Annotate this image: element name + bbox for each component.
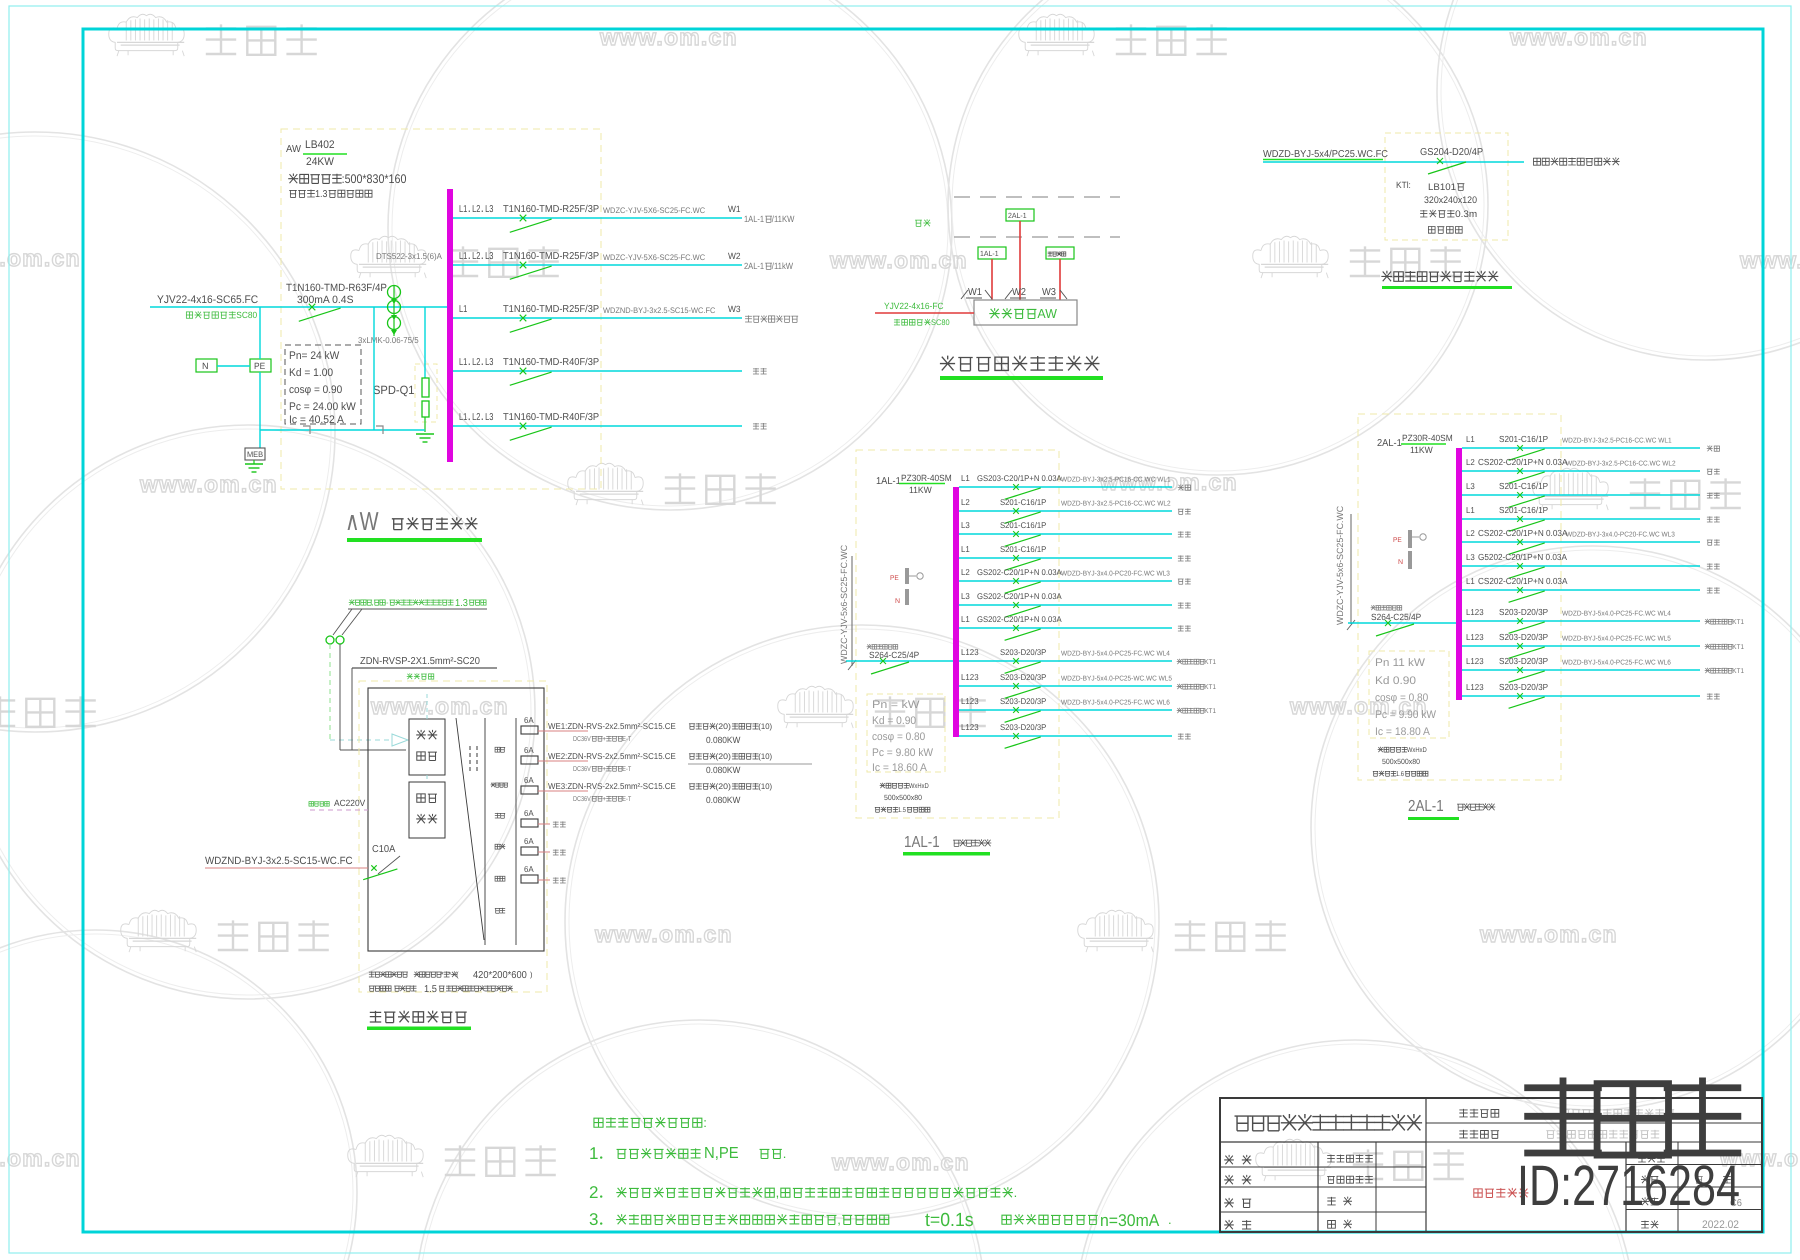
svg-text:L2: L2 <box>472 412 481 423</box>
svg-text:WDZD-BYJ-3x2.5-PC16-CC.WC WL1: WDZD-BYJ-3x2.5-PC16-CC.WC WL1 <box>1061 477 1171 484</box>
svg-text:2: 2 <box>589 1183 598 1202</box>
svg-text:S203-D20/3P: S203-D20/3P <box>1499 632 1548 642</box>
svg-text:Pn = kW: Pn = kW <box>872 699 920 711</box>
svg-text:T1N160-TMD-R25F/3P: T1N160-TMD-R25F/3P <box>503 304 599 315</box>
svg-text:PZ30R-40SM: PZ30R-40SM <box>1402 433 1453 443</box>
svg-text:S201-C16/1P: S201-C16/1P <box>1499 434 1548 444</box>
svg-text:L1: L1 <box>1466 576 1475 586</box>
svg-text:(10): (10) <box>758 752 772 761</box>
svg-text:www.om.cn: www.om.cn <box>139 471 278 497</box>
svg-text:6A: 6A <box>524 836 534 846</box>
svg-text:S203-D20/3P: S203-D20/3P <box>1499 682 1548 692</box>
svg-text:Kd = 0.90: Kd = 0.90 <box>872 715 916 727</box>
svg-text:GS202-C20/1P+N 0.03A: GS202-C20/1P+N 0.03A <box>977 567 1062 577</box>
svg-text:L2: L2 <box>961 567 970 577</box>
svg-text:(20): (20) <box>715 782 731 791</box>
svg-text:ZDN-RVSP-2X1.5mm²-SC20: ZDN-RVSP-2X1.5mm²-SC20 <box>360 656 480 667</box>
svg-text:WE1:ZDN-RVS-2x2.5mm²-SC15.CE: WE1:ZDN-RVS-2x2.5mm²-SC15.CE <box>548 721 676 731</box>
svg-text:KTl:: KTl: <box>1396 180 1411 190</box>
svg-text:LB101: LB101 <box>1428 182 1456 193</box>
svg-text::500*830*160: :500*830*160 <box>342 172 407 186</box>
svg-text:Pc = 9.90 kW: Pc = 9.90 kW <box>1375 709 1437 721</box>
svg-text:n=30mA: n=30mA <box>1100 1211 1160 1230</box>
svg-text:L3: L3 <box>485 412 494 423</box>
svg-text:N: N <box>202 361 209 371</box>
svg-text:T1N160-TMD-R40F/3P: T1N160-TMD-R40F/3P <box>503 412 599 423</box>
svg-text:(10): (10) <box>758 722 772 731</box>
svg-text:DC36V: DC36V <box>573 796 591 803</box>
svg-text:1AL-1: 1AL-1 <box>904 834 940 851</box>
svg-text:/11kW: /11kW <box>772 261 794 271</box>
svg-text:L3: L3 <box>485 204 494 215</box>
svg-text:6A: 6A <box>524 745 534 755</box>
svg-text:,: , <box>837 1212 841 1227</box>
svg-text:S201-C16/1P: S201-C16/1P <box>1000 544 1047 554</box>
svg-text:E-T: E-T <box>622 766 631 773</box>
svg-text:WxHxD: WxHxD <box>1407 747 1427 754</box>
svg-text:DTS522-3x1.5(6)A: DTS522-3x1.5(6)A <box>376 251 442 261</box>
svg-text:0.080KW: 0.080KW <box>706 765 741 775</box>
svg-text:E-T: E-T <box>622 796 631 803</box>
svg-text:G5202-C20/1P+N 0.03A: G5202-C20/1P+N 0.03A <box>1478 552 1567 562</box>
svg-text:MEB: MEB <box>247 450 263 459</box>
svg-text:6A: 6A <box>524 864 534 874</box>
svg-text:L3: L3 <box>1466 481 1475 491</box>
svg-text:WDZD-BYJ-3x2.5-PC16-CC.WC WL2: WDZD-BYJ-3x2.5-PC16-CC.WC WL2 <box>1061 501 1171 508</box>
svg-text:www.om.cn: www.om.cn <box>829 247 968 273</box>
svg-text:S203-D20/3P: S203-D20/3P <box>1000 696 1047 706</box>
svg-text:WDZD-BYJ-5x4.0-PC25-WC.WC WL5: WDZD-BYJ-5x4.0-PC25-WC.WC WL5 <box>1061 676 1172 683</box>
svg-text:6A: 6A <box>524 808 534 818</box>
svg-text:6A: 6A <box>524 715 534 725</box>
svg-text:1.3: 1.3 <box>455 598 468 609</box>
svg-text:GS202-C20/1P+N 0.03A: GS202-C20/1P+N 0.03A <box>977 591 1062 601</box>
svg-text:S201-C16/1P: S201-C16/1P <box>1499 481 1548 491</box>
svg-text:/11KW: /11KW <box>772 214 795 224</box>
svg-text:Pc = 24.00 kW: Pc = 24.00 kW <box>289 401 356 413</box>
svg-text:WDZD-BYJ-5x4/PC25.WC.FC: WDZD-BYJ-5x4/PC25.WC.FC <box>1263 149 1388 160</box>
svg-text:24KW: 24KW <box>306 156 334 168</box>
svg-text:1.6: 1.6 <box>1396 771 1404 778</box>
svg-text:WDZD-BYJ-3x4.0-PC20-FC.WC WL3: WDZD-BYJ-3x4.0-PC20-FC.WC WL3 <box>1061 571 1170 578</box>
svg-text:cosφ = 0.80: cosφ = 0.80 <box>872 731 925 743</box>
svg-text:WDZND-BYJ-3x2.5-SC15-WC.FC: WDZND-BYJ-3x2.5-SC15-WC.FC <box>603 306 716 315</box>
svg-text:L123: L123 <box>961 696 979 706</box>
svg-text:ID:2716284: ID:2716284 <box>1517 1154 1740 1218</box>
svg-text:2AL-1: 2AL-1 <box>1408 798 1444 815</box>
svg-text:1: 1 <box>589 1144 598 1163</box>
svg-text:WDZD-BYJ-5x4.0-PC25-FC.WC WL4: WDZD-BYJ-5x4.0-PC25-FC.WC WL4 <box>1562 611 1671 618</box>
svg-text:T1N160-TMD-R25F/3P: T1N160-TMD-R25F/3P <box>503 251 599 262</box>
svg-text:L3: L3 <box>1466 552 1475 562</box>
svg-text:PE: PE <box>254 361 265 371</box>
svg-text:DC36V: DC36V <box>573 736 591 743</box>
svg-text:L1: L1 <box>459 412 468 423</box>
svg-text:WE3:ZDN-RVS-2x2.5mm²-SC15.CE: WE3:ZDN-RVS-2x2.5mm²-SC15.CE <box>548 781 676 791</box>
svg-text:∧W: ∧W <box>345 506 379 536</box>
svg-text:Kd = 1.00: Kd = 1.00 <box>289 367 333 379</box>
svg-text:S201-C16/1P: S201-C16/1P <box>1000 520 1047 530</box>
svg-text:L2: L2 <box>472 204 481 215</box>
svg-text:WE2:ZDN-RVS-2x2.5mm²-SC15.CE: WE2:ZDN-RVS-2x2.5mm²-SC15.CE <box>548 751 676 761</box>
svg-text:W1: W1 <box>728 204 741 214</box>
svg-text:WDZD-BYJ-3x4.0-PC20-FC.WC WL3: WDZD-BYJ-3x4.0-PC20-FC.WC WL3 <box>1566 532 1675 539</box>
svg-text:GS202-C20/1P+N 0.03A: GS202-C20/1P+N 0.03A <box>977 614 1062 624</box>
svg-text:CS202-C20/1P+N 0.03A: CS202-C20/1P+N 0.03A <box>1478 576 1568 586</box>
svg-text:E-T: E-T <box>622 736 631 743</box>
svg-text:Kd 0.90: Kd 0.90 <box>1375 675 1416 687</box>
svg-text:L1: L1 <box>961 544 970 554</box>
svg-text:L1: L1 <box>961 473 970 483</box>
svg-text:.: . <box>1014 1185 1018 1200</box>
svg-text:2AL-1: 2AL-1 <box>1008 211 1027 220</box>
svg-text:L2: L2 <box>961 497 970 507</box>
svg-text:500x500x80: 500x500x80 <box>884 793 922 802</box>
svg-text:AW: AW <box>1037 306 1057 321</box>
svg-text:WDZC-YJV-5X6-SC25-FC.WC: WDZC-YJV-5X6-SC25-FC.WC <box>603 253 705 262</box>
svg-text:W2: W2 <box>728 251 741 261</box>
svg-text:t=0.1s: t=0.1s <box>925 1210 974 1231</box>
svg-text:WDZC-YJV-5x6-SC25-FC.WC: WDZC-YJV-5x6-SC25-FC.WC <box>839 544 849 664</box>
svg-text:www.om.cn: www.om.cn <box>1479 921 1618 947</box>
svg-text:cosφ = 0.80: cosφ = 0.80 <box>1375 692 1428 704</box>
svg-text:1.5: 1.5 <box>898 807 906 814</box>
svg-text::: : <box>703 1115 707 1130</box>
svg-text:0.080KW: 0.080KW <box>706 735 741 745</box>
svg-text:L1: L1 <box>459 357 468 368</box>
svg-text:SPD-Q1: SPD-Q1 <box>373 383 415 397</box>
svg-text:L123: L123 <box>961 672 979 682</box>
svg-text:Ic = 40.52 A: Ic = 40.52 A <box>289 414 345 426</box>
svg-text:WDZD-BYJ-3x2.5-PC16-CC.WC WL2: WDZD-BYJ-3x2.5-PC16-CC.WC WL2 <box>1566 461 1676 468</box>
svg-text:1.5: 1.5 <box>424 984 437 995</box>
svg-text:L1: L1 <box>1466 505 1475 515</box>
svg-text:SC80: SC80 <box>931 318 950 327</box>
svg-text:W3: W3 <box>1042 287 1056 298</box>
svg-text:L3: L3 <box>485 251 494 262</box>
svg-text:0.3m: 0.3m <box>1455 209 1477 220</box>
svg-text:WxHxD: WxHxD <box>909 783 929 790</box>
svg-text:WDZD-BYJ-5x4.0-PC25-FC.WC WL6: WDZD-BYJ-5x4.0-PC25-FC.WC WL6 <box>1061 700 1170 707</box>
svg-text:S264-C25/4P: S264-C25/4P <box>869 650 919 660</box>
svg-text:AC220V: AC220V <box>334 798 365 808</box>
svg-text:L2: L2 <box>472 357 481 368</box>
svg-text:(10): (10) <box>758 782 772 791</box>
svg-text:L2: L2 <box>472 251 481 262</box>
svg-text:S201-C16/1P: S201-C16/1P <box>1000 497 1047 507</box>
svg-text:N: N <box>1398 559 1403 566</box>
svg-text:www.om.cn: www.om.cn <box>0 245 81 271</box>
svg-text:6A: 6A <box>524 775 534 785</box>
svg-text:2022.02: 2022.02 <box>1702 1219 1739 1231</box>
svg-text:T1N160-TMD-R40F/3P: T1N160-TMD-R40F/3P <box>503 357 599 368</box>
svg-text:+: + <box>602 736 606 743</box>
svg-text:320x240x120: 320x240x120 <box>1424 195 1477 206</box>
svg-text:S203-D20/3P: S203-D20/3P <box>1499 656 1548 666</box>
svg-text:PZ30R-40SM: PZ30R-40SM <box>901 473 952 483</box>
svg-text:WDZND-BYJ-3x2.5-SC15-WC.FC: WDZND-BYJ-3x2.5-SC15-WC.FC <box>205 855 353 867</box>
svg-text:PE: PE <box>890 575 899 582</box>
svg-text:1AL-1: 1AL-1 <box>980 249 999 258</box>
svg-text:KT1: KT1 <box>1204 684 1216 691</box>
svg-text:1AL-1: 1AL-1 <box>876 476 901 487</box>
svg-text:+: + <box>602 796 606 803</box>
svg-text:S203-D20/3P: S203-D20/3P <box>1000 647 1047 657</box>
svg-text:WDZD-BYJ-5x4.0-PC25-FC.WC WL5: WDZD-BYJ-5x4.0-PC25-FC.WC WL5 <box>1562 636 1671 643</box>
svg-text:LB402: LB402 <box>305 139 335 151</box>
svg-text:Ic = 18.60 A: Ic = 18.60 A <box>872 762 928 774</box>
svg-text:11KW: 11KW <box>909 485 932 495</box>
svg-text:L1: L1 <box>459 304 468 315</box>
svg-text:W1: W1 <box>968 287 982 298</box>
svg-text:L123: L123 <box>961 647 979 657</box>
svg-text:SC80: SC80 <box>236 310 257 320</box>
svg-text:2AL-1: 2AL-1 <box>1377 438 1402 449</box>
svg-text:C10A: C10A <box>372 844 396 855</box>
svg-text:Ic = 18.80 A: Ic = 18.80 A <box>1375 726 1431 738</box>
svg-text:AW: AW <box>286 144 302 155</box>
svg-text:L123: L123 <box>961 722 979 732</box>
svg-text:YJV22-4x16-SC65.FC: YJV22-4x16-SC65.FC <box>157 294 258 306</box>
svg-text:WDZD-BYJ-5x4.0-PC25-FC.WC WL4: WDZD-BYJ-5x4.0-PC25-FC.WC WL4 <box>1061 651 1170 658</box>
svg-text:1.3: 1.3 <box>315 189 328 200</box>
svg-text:--: -- <box>385 598 389 607</box>
svg-text:GS204-D20/4P: GS204-D20/4P <box>1420 147 1483 158</box>
svg-text:Pc = 9.80 kW: Pc = 9.80 kW <box>872 747 934 759</box>
svg-text:2AL-1: 2AL-1 <box>744 261 764 271</box>
svg-text:S203-D20/3P: S203-D20/3P <box>1000 722 1047 732</box>
svg-text:www.om.cn: www.om.cn <box>370 693 509 719</box>
svg-text:.: . <box>1168 1212 1172 1227</box>
svg-text:N: N <box>895 598 900 605</box>
svg-text:L3: L3 <box>961 520 970 530</box>
svg-text:WDZD-BYJ-3x2.5-PC16-CC.WC WL1: WDZD-BYJ-3x2.5-PC16-CC.WC WL1 <box>1562 438 1672 445</box>
svg-text:(20): (20) <box>715 752 731 761</box>
svg-text:PE: PE <box>1393 537 1402 544</box>
svg-text:T1N160-TMD-R25F/3P: T1N160-TMD-R25F/3P <box>503 204 599 215</box>
svg-text:*: * <box>441 970 444 979</box>
svg-text:www.om.cn: www.om.cn <box>831 1149 970 1175</box>
svg-text:L2: L2 <box>1466 528 1475 538</box>
svg-text:YJV22-4x16-FC: YJV22-4x16-FC <box>884 301 944 311</box>
svg-text:(20): (20) <box>715 722 731 731</box>
svg-text:cosφ = 0.90: cosφ = 0.90 <box>289 384 342 396</box>
svg-text:11KW: 11KW <box>1410 445 1433 455</box>
svg-text:www.om.cn: www.om.cn <box>594 921 733 947</box>
svg-text:3xLMK-0.06-75/5: 3xLMK-0.06-75/5 <box>358 335 419 345</box>
svg-text:KT1: KT1 <box>1732 644 1744 651</box>
svg-text:S203-D20/3P: S203-D20/3P <box>1499 607 1548 617</box>
svg-text:.: . <box>783 1146 787 1161</box>
svg-text:N,PE: N,PE <box>704 1145 739 1162</box>
svg-text:W2: W2 <box>1012 287 1026 298</box>
svg-text:Pn= 24 kW: Pn= 24 kW <box>289 350 340 362</box>
svg-text:CS202-C20/1P+N 0.03A: CS202-C20/1P+N 0.03A <box>1478 528 1568 538</box>
svg-text:0.080KW: 0.080KW <box>706 795 741 805</box>
svg-text:WDZC-YJV-5x6-SC25-FC.WC: WDZC-YJV-5x6-SC25-FC.WC <box>1335 505 1345 625</box>
svg-text:www.om.cn: www.om.cn <box>0 1145 81 1171</box>
svg-text:*: * <box>448 970 451 979</box>
svg-text:1AL-1: 1AL-1 <box>744 214 764 224</box>
svg-text:L123: L123 <box>1466 682 1484 692</box>
svg-text:S264-C25/4P: S264-C25/4P <box>1371 612 1421 622</box>
svg-text:L2: L2 <box>1466 457 1475 467</box>
svg-text:L3: L3 <box>485 357 494 368</box>
svg-text:KT1: KT1 <box>1732 619 1744 626</box>
svg-text:L1: L1 <box>961 614 970 624</box>
svg-text:L1: L1 <box>459 204 468 215</box>
svg-text:WDZD-BYJ-5x4.0-PC25-FC.WC WL6: WDZD-BYJ-5x4.0-PC25-FC.WC WL6 <box>1562 660 1671 667</box>
svg-text:L1: L1 <box>459 251 468 262</box>
svg-text:KT1: KT1 <box>1204 708 1216 715</box>
svg-text:L123: L123 <box>1466 632 1484 642</box>
svg-text:W3: W3 <box>728 304 741 314</box>
svg-text:,: , <box>776 1185 780 1200</box>
svg-text:420*200*600: 420*200*600 <box>473 970 527 981</box>
svg-text:500x500x80: 500x500x80 <box>1382 757 1420 766</box>
svg-text:300mA 0.4S: 300mA 0.4S <box>297 294 354 306</box>
svg-text:WDZC-YJV-5X6-SC25-FC.WC: WDZC-YJV-5X6-SC25-FC.WC <box>603 206 705 215</box>
svg-text:T1N160-TMD-R63F/4P: T1N160-TMD-R63F/4P <box>286 282 387 294</box>
svg-text:GS203-C20/1P+N 0.03A: GS203-C20/1P+N 0.03A <box>977 473 1062 483</box>
svg-text:S201-C16/1P: S201-C16/1P <box>1499 505 1548 515</box>
svg-text:Pn 11 kW: Pn 11 kW <box>1375 657 1426 669</box>
svg-text:+: + <box>602 766 606 773</box>
svg-text:L123: L123 <box>1466 607 1484 617</box>
svg-text:KT1: KT1 <box>1204 659 1216 666</box>
svg-text:L3: L3 <box>961 591 970 601</box>
svg-text:L123: L123 <box>1466 656 1484 666</box>
svg-text:3: 3 <box>589 1210 598 1229</box>
svg-text:S203-D20/3P: S203-D20/3P <box>1000 672 1047 682</box>
svg-text:,: , <box>371 598 373 607</box>
svg-text:DC36V: DC36V <box>573 766 591 773</box>
svg-text:CS202-C20/1P+N 0.03A: CS202-C20/1P+N 0.03A <box>1478 457 1568 467</box>
svg-text:KT1: KT1 <box>1732 668 1744 675</box>
svg-text:L1: L1 <box>1466 434 1475 444</box>
